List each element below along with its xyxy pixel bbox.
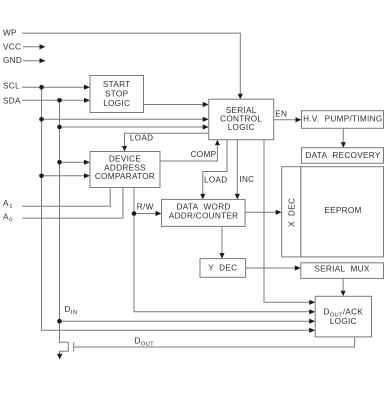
junction dot R/W <box>132 211 137 216</box>
wire DIN line to Dout/Ack logic <box>60 320 311 322</box>
box data recovery <box>302 148 384 164</box>
svg-text:LOGIC: LOGIC <box>103 99 130 108</box>
wire SCL branch to device address comparator <box>42 175 86 177</box>
svg-text:WP: WP <box>3 29 17 38</box>
transistor source to ground <box>60 351 69 354</box>
arrowhead SDA branch into serial control <box>203 124 209 129</box>
arrowhead SCL branch into serial control <box>203 117 209 122</box>
arrowhead SCL into Dout/Ack logic <box>309 328 315 333</box>
arrowhead LOAD into comparator top <box>122 146 127 152</box>
svg-text:0: 0 <box>9 218 13 224</box>
svg-text:ADDRESS: ADDRESS <box>104 163 146 172</box>
svg-text:Y DEC: Y DEC <box>208 264 237 273</box>
wire SDA branch to device address comparator <box>60 161 86 163</box>
wire Y DEC to serial mux <box>246 267 296 269</box>
svg-text:STOP: STOP <box>105 90 129 99</box>
wire GND stub <box>23 60 40 62</box>
svg-text:IN: IN <box>71 310 77 316</box>
svg-text:LOAD: LOAD <box>130 134 154 143</box>
svg-text:LOAD: LOAD <box>204 175 228 184</box>
svg-text:H.V. PUMP/TIMING: H.V. PUMP/TIMING <box>303 115 382 124</box>
junction dot DIN <box>57 319 62 324</box>
wire SDA vertical branch down to output transistor drain <box>60 100 69 342</box>
svg-text:X DEC: X DEC <box>287 198 296 227</box>
svg-text:VCC: VCC <box>3 42 21 51</box>
transistor output MOSFET channel bar <box>67 342 69 351</box>
wire WP horizontal+vertical into serial control logic <box>22 33 240 94</box>
arrowhead SDA branch into comparator <box>84 160 90 165</box>
arrowhead H.V. pump into data recovery <box>341 142 346 148</box>
arrowhead ground below transistor <box>57 354 62 360</box>
svg-text:A: A <box>3 213 9 222</box>
box Dout/Ack logic <box>315 296 371 337</box>
wire data word addr/counter to Y DEC <box>221 226 223 253</box>
wire H.V. pump to data recovery <box>342 128 344 142</box>
box Y DEC <box>200 259 246 278</box>
svg-text:COMP: COMP <box>191 150 217 159</box>
arrowhead DIN into Dout/Ack logic <box>309 319 315 324</box>
arrowhead R/W into data word <box>156 211 162 216</box>
wire serial mux to Dout/Ack logic <box>342 278 344 291</box>
junction dot SCL <box>39 85 44 90</box>
arrowhead SCL into start stop logic <box>84 85 90 90</box>
wire R/W vertical down to Dout/Ack logic <box>134 188 310 312</box>
svg-text:SCL: SCL <box>3 82 20 91</box>
wire SDA to start stop logic <box>22 99 85 101</box>
wire start stop logic to serial control logic <box>144 104 204 106</box>
wire SDA branch to serial control logic <box>60 126 204 128</box>
junction dot SCL to comparator <box>39 174 44 179</box>
svg-text:START: START <box>103 80 131 89</box>
arrowhead LOAD into data word top <box>200 194 205 200</box>
arrowhead VCC <box>40 44 46 49</box>
svg-text:COMPARATOR: COMPARATOR <box>95 172 155 181</box>
box EEPROM <box>301 167 384 257</box>
arrowhead COMP up into serial control bottom <box>215 140 220 146</box>
junction dot SDA <box>57 98 62 103</box>
svg-text:1: 1 <box>9 204 13 210</box>
svg-text:DATA WORD: DATA WORD <box>177 203 231 212</box>
junction dot SDA to comparator <box>57 160 62 165</box>
box H.V. pump/timing <box>302 111 384 129</box>
wire A1 into comparator bottom <box>22 188 110 207</box>
svg-text:EEPROM: EEPROM <box>324 206 361 215</box>
wire EN to H.V. pump/timing <box>274 119 297 121</box>
svg-text:SDA: SDA <box>3 97 21 106</box>
arrowhead GND <box>40 58 46 63</box>
svg-text:INC: INC <box>239 175 254 184</box>
svg-text:D: D <box>65 305 71 314</box>
svg-text:OUT: OUT <box>141 341 154 347</box>
wire SCL vertical branch down to Dout/Ack logic <box>42 87 311 330</box>
svg-text:DATA RECOVERY: DATA RECOVERY <box>305 151 380 160</box>
box serial control logic <box>209 99 274 140</box>
arrowhead EN into H.V. pump <box>296 117 302 122</box>
arrowhead data word into X DEC <box>276 210 282 215</box>
box start stop logic <box>90 76 144 113</box>
svg-text:LOGIC: LOGIC <box>228 123 255 132</box>
arrowhead WP down into serial control logic <box>238 94 243 100</box>
arrowhead data word into Y DEC <box>219 253 224 259</box>
arrowhead SCL branch into comparator <box>84 173 90 178</box>
svg-text:ADDR/COUNTER: ADDR/COUNTER <box>169 211 239 220</box>
svg-text:D: D <box>135 336 141 345</box>
box device address comparator <box>90 152 160 188</box>
box serial mux <box>301 263 384 279</box>
wire R/W branch to data word addr/counter <box>134 213 157 215</box>
junction dot SCL to serial control <box>39 117 44 122</box>
box X DEC <box>282 167 301 257</box>
wire A0 into comparator bottom <box>22 188 123 219</box>
wire SCL branch to serial control logic <box>42 118 204 120</box>
svg-text:DEVICE: DEVICE <box>109 155 142 164</box>
wire COMP from comparator to serial control logic bottom <box>160 146 217 161</box>
arrowhead start stop to serial control <box>203 102 209 107</box>
svg-text:SERIAL MUX: SERIAL MUX <box>314 264 369 273</box>
arrowhead serial mux into Dout/Ack logic <box>341 291 346 297</box>
arrowhead INC into data word top <box>235 194 240 200</box>
wire data word addr/counter to X DEC <box>245 211 277 213</box>
arrowhead SDA into start stop logic <box>84 98 90 103</box>
box data word addr/counter <box>162 199 246 226</box>
arrowhead R/W into Dout/Ack logic <box>309 309 315 314</box>
wire LOAD from serial control logic to comparator top <box>125 133 209 146</box>
arrowhead Y DEC into serial mux <box>295 265 301 270</box>
junction dot SDA to serial control <box>57 125 62 130</box>
svg-text:A: A <box>3 199 9 208</box>
wire SCL to start stop logic <box>22 86 85 88</box>
arrowhead serial control into Dout/Ack logic <box>309 300 315 305</box>
wire VCC stub <box>23 46 40 48</box>
svg-text:R/W: R/W <box>137 203 154 212</box>
svg-text:EN: EN <box>275 110 287 119</box>
transistor output MOSFET gate bar <box>73 342 75 351</box>
wire LOAD from serial control logic to data word addr/counter <box>203 140 227 195</box>
wire serial control logic down to Dout/Ack logic <box>264 140 310 303</box>
wire INC from serial control logic to data word addr/counter <box>236 140 238 195</box>
svg-text:GND: GND <box>3 56 22 65</box>
svg-text:LOGIC: LOGIC <box>330 317 357 326</box>
wire DOUT from Dout/Ack logic to transistor gate <box>74 337 354 347</box>
